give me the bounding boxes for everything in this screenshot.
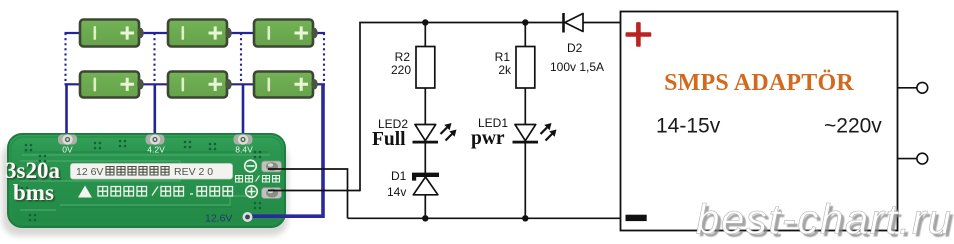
svg-text:2k: 2k: [498, 63, 512, 77]
wire AC terminal 1: [898, 87, 918, 89]
pad B2 8.4V: [234, 134, 254, 154]
svg-text:R1: R1: [495, 50, 511, 64]
silkscreen warning line: [78, 186, 233, 198]
svg-text:REV 2 0: REV 2 0: [174, 166, 213, 178]
watermark best-chart.ru: [696, 196, 954, 244]
LED1: [513, 123, 557, 144]
BMS protection board 3s20a: [2, 84, 323, 236]
svg-text:14v: 14v: [387, 185, 406, 199]
wire top rail after D2: [582, 22, 621, 24]
wire BMS P- to bottom rail: [268, 169, 348, 218]
svg-text:100v 1,5A: 100v 1,5A: [550, 60, 604, 74]
dotted link col2: [153, 33, 155, 84]
wire AC terminal 2: [898, 158, 918, 160]
svg-text:14-15v: 14-15v: [656, 115, 721, 138]
svg-text:~220v: ~220v: [824, 115, 882, 138]
wire B1+ to B2-: [139, 32, 168, 34]
node top R2: [422, 19, 428, 25]
pcb traces: [20, 155, 270, 210]
LED2: [413, 123, 457, 144]
svg-text:8.4V: 8.4V: [235, 145, 253, 155]
svg-text:best-chart.ru: best-chart.ru: [696, 196, 951, 243]
diode D2: [564, 13, 584, 33]
node top R1: [522, 19, 528, 25]
wire R1 branch: [524, 23, 526, 219]
wire left riser: [359, 23, 361, 192]
svg-text:pwr: pwr: [471, 128, 505, 149]
battery pack wiring: [65, 20, 326, 141]
thick pack+ wire to 12.6V pad: [248, 84, 323, 216]
wire row2 right stub: [314, 83, 325, 85]
indicator circuit: [268, 13, 621, 222]
battery B5: [168, 72, 232, 98]
node bottom branch LED2: [422, 215, 428, 221]
wire B4+ to B5-: [139, 83, 168, 85]
svg-text:4.2V: 4.2V: [147, 145, 165, 155]
svg-text:12 6V: 12 6V: [76, 166, 103, 178]
3s20a bms marking: [5, 158, 60, 205]
wire row2 left stub: [65, 83, 81, 85]
wire bottom rail: [348, 217, 621, 219]
svg-text:220: 220: [391, 63, 411, 77]
sense wire 8.4V: [242, 84, 245, 140]
charge/discharge silkscreen: [236, 176, 280, 183]
P+ solder pad: [262, 188, 282, 199]
P- solder pad: [262, 161, 282, 172]
AC terminal 2: [917, 153, 928, 164]
dotted link col4: [323, 33, 325, 84]
svg-text:D2: D2: [567, 41, 583, 55]
plus terminal mark: [626, 22, 652, 47]
board body: [8, 134, 285, 227]
battery B2: [168, 20, 232, 47]
wire BMS P+ to left riser: [268, 190, 360, 192]
dotted link col3: [240, 33, 242, 84]
svg-text:R2: R2: [395, 50, 411, 64]
svg-text:0V: 0V: [62, 145, 73, 155]
SMPS adaptor block: [621, 12, 928, 231]
pad B1 4.2V: [146, 134, 166, 154]
battery B3: [254, 20, 318, 47]
wire row1 left stub: [65, 32, 81, 34]
zener D1: [412, 173, 439, 195]
battery B6: [254, 72, 318, 98]
via dot clusters: [21, 140, 262, 222]
minus terminal mark: [626, 215, 647, 221]
wire R2 branch: [424, 23, 426, 219]
P- terminal symbol: [245, 160, 257, 172]
wire B5+ to B6-: [228, 83, 254, 85]
svg-text:12.6V: 12.6V: [205, 213, 232, 225]
wire B2+ to B3-: [228, 32, 254, 34]
resistor R1: [516, 47, 535, 89]
sense wire 0V: [65, 84, 68, 140]
smps box: [621, 12, 898, 231]
sense wire 4.2V: [154, 84, 157, 140]
board shadow: [2, 142, 288, 236]
pad B- 0V: [58, 134, 77, 154]
AC terminal 1: [917, 82, 928, 93]
wire row1 right stub: [314, 32, 325, 34]
resistor R2: [416, 47, 435, 89]
svg-text:SMPS ADAPTÖR: SMPS ADAPTÖR: [664, 70, 854, 96]
dotted link col1: [64, 33, 66, 84]
battery B4: [80, 72, 144, 98]
node bottom branch LED1: [522, 215, 528, 221]
svg-text:Full: Full: [372, 129, 406, 150]
svg-text:bms: bms: [13, 180, 54, 205]
battery B1: [80, 20, 144, 47]
label sticker 12.6V REV 2.0: [71, 164, 233, 180]
P+ terminal symbol: [246, 186, 258, 198]
svg-text:D1: D1: [391, 169, 407, 183]
wire top rail: [359, 22, 563, 24]
12.6V pad: [243, 212, 253, 222]
